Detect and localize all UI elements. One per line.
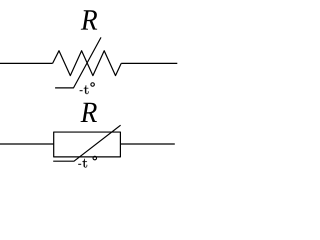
thermistor diagonal stroke with bent foot (top)	[55, 37, 101, 88]
thermistor diagonal stroke with bent foot (bottom)	[53, 125, 120, 161]
wire (bottom right lead)	[120, 143, 174, 145]
letter t (top)	[84, 85, 89, 94]
resistor R2 (box thermistor body)	[54, 132, 121, 157]
minus sign of -t (bottom)	[78, 163, 81, 165]
label R (bottom)	[81, 103, 97, 122]
minus sign of -t (top)	[80, 90, 83, 92]
label R (top)	[81, 10, 97, 29]
wire (top left lead)	[0, 62, 53, 64]
degree symbol (top)	[91, 83, 95, 87]
wire (bottom left lead)	[0, 143, 54, 145]
degree symbol (bottom)	[93, 156, 97, 160]
letter t (bottom)	[82, 159, 87, 168]
wire (top right lead)	[121, 62, 177, 64]
resistor R1 (zigzag thermistor body)	[53, 51, 122, 76]
